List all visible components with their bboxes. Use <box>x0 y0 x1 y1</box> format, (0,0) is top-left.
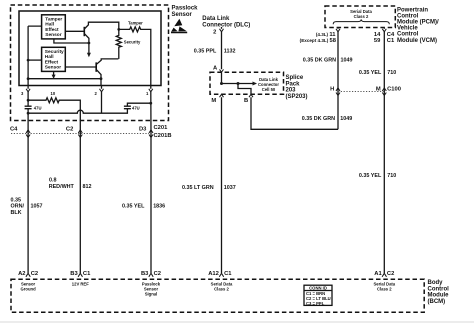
svg-text:M: M <box>376 86 381 92</box>
svg-text:Serial Data: Serial Data <box>350 9 372 14</box>
svg-text:Sensor: Sensor <box>45 65 61 71</box>
svg-text:Signal: Signal <box>145 292 158 297</box>
svg-text:B3: B3 <box>141 271 149 277</box>
svg-text:C1: C1 <box>83 271 91 277</box>
svg-text:Powertrain: Powertrain <box>397 7 428 13</box>
svg-text:12V REF: 12V REF <box>72 282 89 287</box>
svg-text:1049: 1049 <box>341 58 353 64</box>
svg-text:2: 2 <box>213 30 216 36</box>
svg-text:ORN/: ORN/ <box>11 204 25 210</box>
svg-text:C2: C2 <box>66 126 73 132</box>
svg-text:0.35 YEL: 0.35 YEL <box>359 173 382 179</box>
svg-text:Control: Control <box>397 32 419 38</box>
svg-text:C3 = PPL: C3 = PPL <box>306 301 325 306</box>
svg-text:C1: C1 <box>224 271 232 277</box>
svg-text:C2: C2 <box>387 271 394 277</box>
svg-text:B3: B3 <box>70 271 78 277</box>
svg-text:Connector (DLC): Connector (DLC) <box>202 22 250 28</box>
svg-text:10: 10 <box>51 91 56 96</box>
svg-text:0.35 YEL: 0.35 YEL <box>122 204 145 210</box>
svg-text:0.35 DK GRN: 0.35 DK GRN <box>302 116 335 122</box>
svg-text:Hall: Hall <box>45 54 54 60</box>
svg-text:Body: Body <box>428 280 444 286</box>
svg-text:47U: 47U <box>34 106 42 111</box>
svg-text:0.35: 0.35 <box>11 197 22 203</box>
svg-text:1836: 1836 <box>153 204 165 210</box>
svg-text:RED/WHT: RED/WHT <box>49 184 75 190</box>
svg-text:1049: 1049 <box>340 116 352 122</box>
svg-text:Data Link: Data Link <box>202 16 230 22</box>
svg-text:(SP203): (SP203) <box>286 94 308 100</box>
svg-text:Sensor: Sensor <box>172 12 193 18</box>
svg-text:A2: A2 <box>18 271 25 277</box>
svg-text:C201B: C201B <box>154 133 172 139</box>
svg-text:C100: C100 <box>387 86 401 92</box>
svg-text:Tamper: Tamper <box>128 21 143 26</box>
svg-text:Effect: Effect <box>45 59 59 65</box>
svg-text:Cell 50: Cell 50 <box>262 87 276 92</box>
svg-text:Class 2: Class 2 <box>214 287 229 292</box>
svg-text:59: 59 <box>374 38 381 44</box>
svg-text:C2: C2 <box>154 271 161 277</box>
svg-text:710: 710 <box>387 173 396 179</box>
svg-text:0.35 DK GRN: 0.35 DK GRN <box>303 58 336 64</box>
svg-text:D3: D3 <box>139 126 147 132</box>
svg-text:BLK: BLK <box>11 210 22 216</box>
svg-text:Control: Control <box>397 13 419 19</box>
svg-text:Ground: Ground <box>21 287 37 292</box>
svg-text:C2: C2 <box>31 271 38 277</box>
svg-text:Passlock: Passlock <box>172 6 199 12</box>
svg-text:B: B <box>244 98 248 104</box>
svg-text:Security: Security <box>124 40 141 45</box>
svg-text:Splice: Splice <box>286 75 304 81</box>
svg-text:Class 2: Class 2 <box>354 14 369 19</box>
svg-text:M: M <box>211 98 216 104</box>
svg-text:Effect: Effect <box>45 27 59 33</box>
svg-text:Security: Security <box>45 49 64 55</box>
svg-text:1037: 1037 <box>224 185 236 191</box>
svg-text:Pack: Pack <box>286 81 301 87</box>
svg-text:1132: 1132 <box>224 49 236 55</box>
svg-text:A1: A1 <box>374 271 382 277</box>
svg-text:Control: Control <box>428 286 450 292</box>
svg-text:Class 2: Class 2 <box>377 287 392 292</box>
svg-text:H: H <box>330 86 334 92</box>
svg-text:A12: A12 <box>208 271 219 277</box>
svg-text:Module (VCM): Module (VCM) <box>397 38 437 44</box>
svg-text:Module: Module <box>428 293 450 299</box>
svg-text:(BCM): (BCM) <box>428 299 446 305</box>
svg-text:0.35 LT GRN: 0.35 LT GRN <box>182 185 214 191</box>
svg-text:0.8: 0.8 <box>49 177 57 183</box>
svg-text:1057: 1057 <box>31 204 43 210</box>
svg-text:C1: C1 <box>387 38 395 44</box>
svg-text:Tamper: Tamper <box>45 17 62 23</box>
svg-text:Vehicle: Vehicle <box>397 26 418 32</box>
svg-text:710: 710 <box>387 70 396 76</box>
svg-text:0.35 PPL: 0.35 PPL <box>194 49 217 55</box>
svg-text:C201: C201 <box>154 125 169 131</box>
svg-text:47U: 47U <box>132 106 140 111</box>
svg-text:203: 203 <box>286 88 297 94</box>
svg-text:0.35 YEL: 0.35 YEL <box>359 70 382 76</box>
svg-text:C4: C4 <box>10 126 18 132</box>
svg-text:Hall: Hall <box>45 22 54 28</box>
svg-text:812: 812 <box>83 184 92 190</box>
svg-text:Module (PCM)/: Module (PCM)/ <box>397 20 439 26</box>
svg-text:Sensor: Sensor <box>45 32 61 38</box>
